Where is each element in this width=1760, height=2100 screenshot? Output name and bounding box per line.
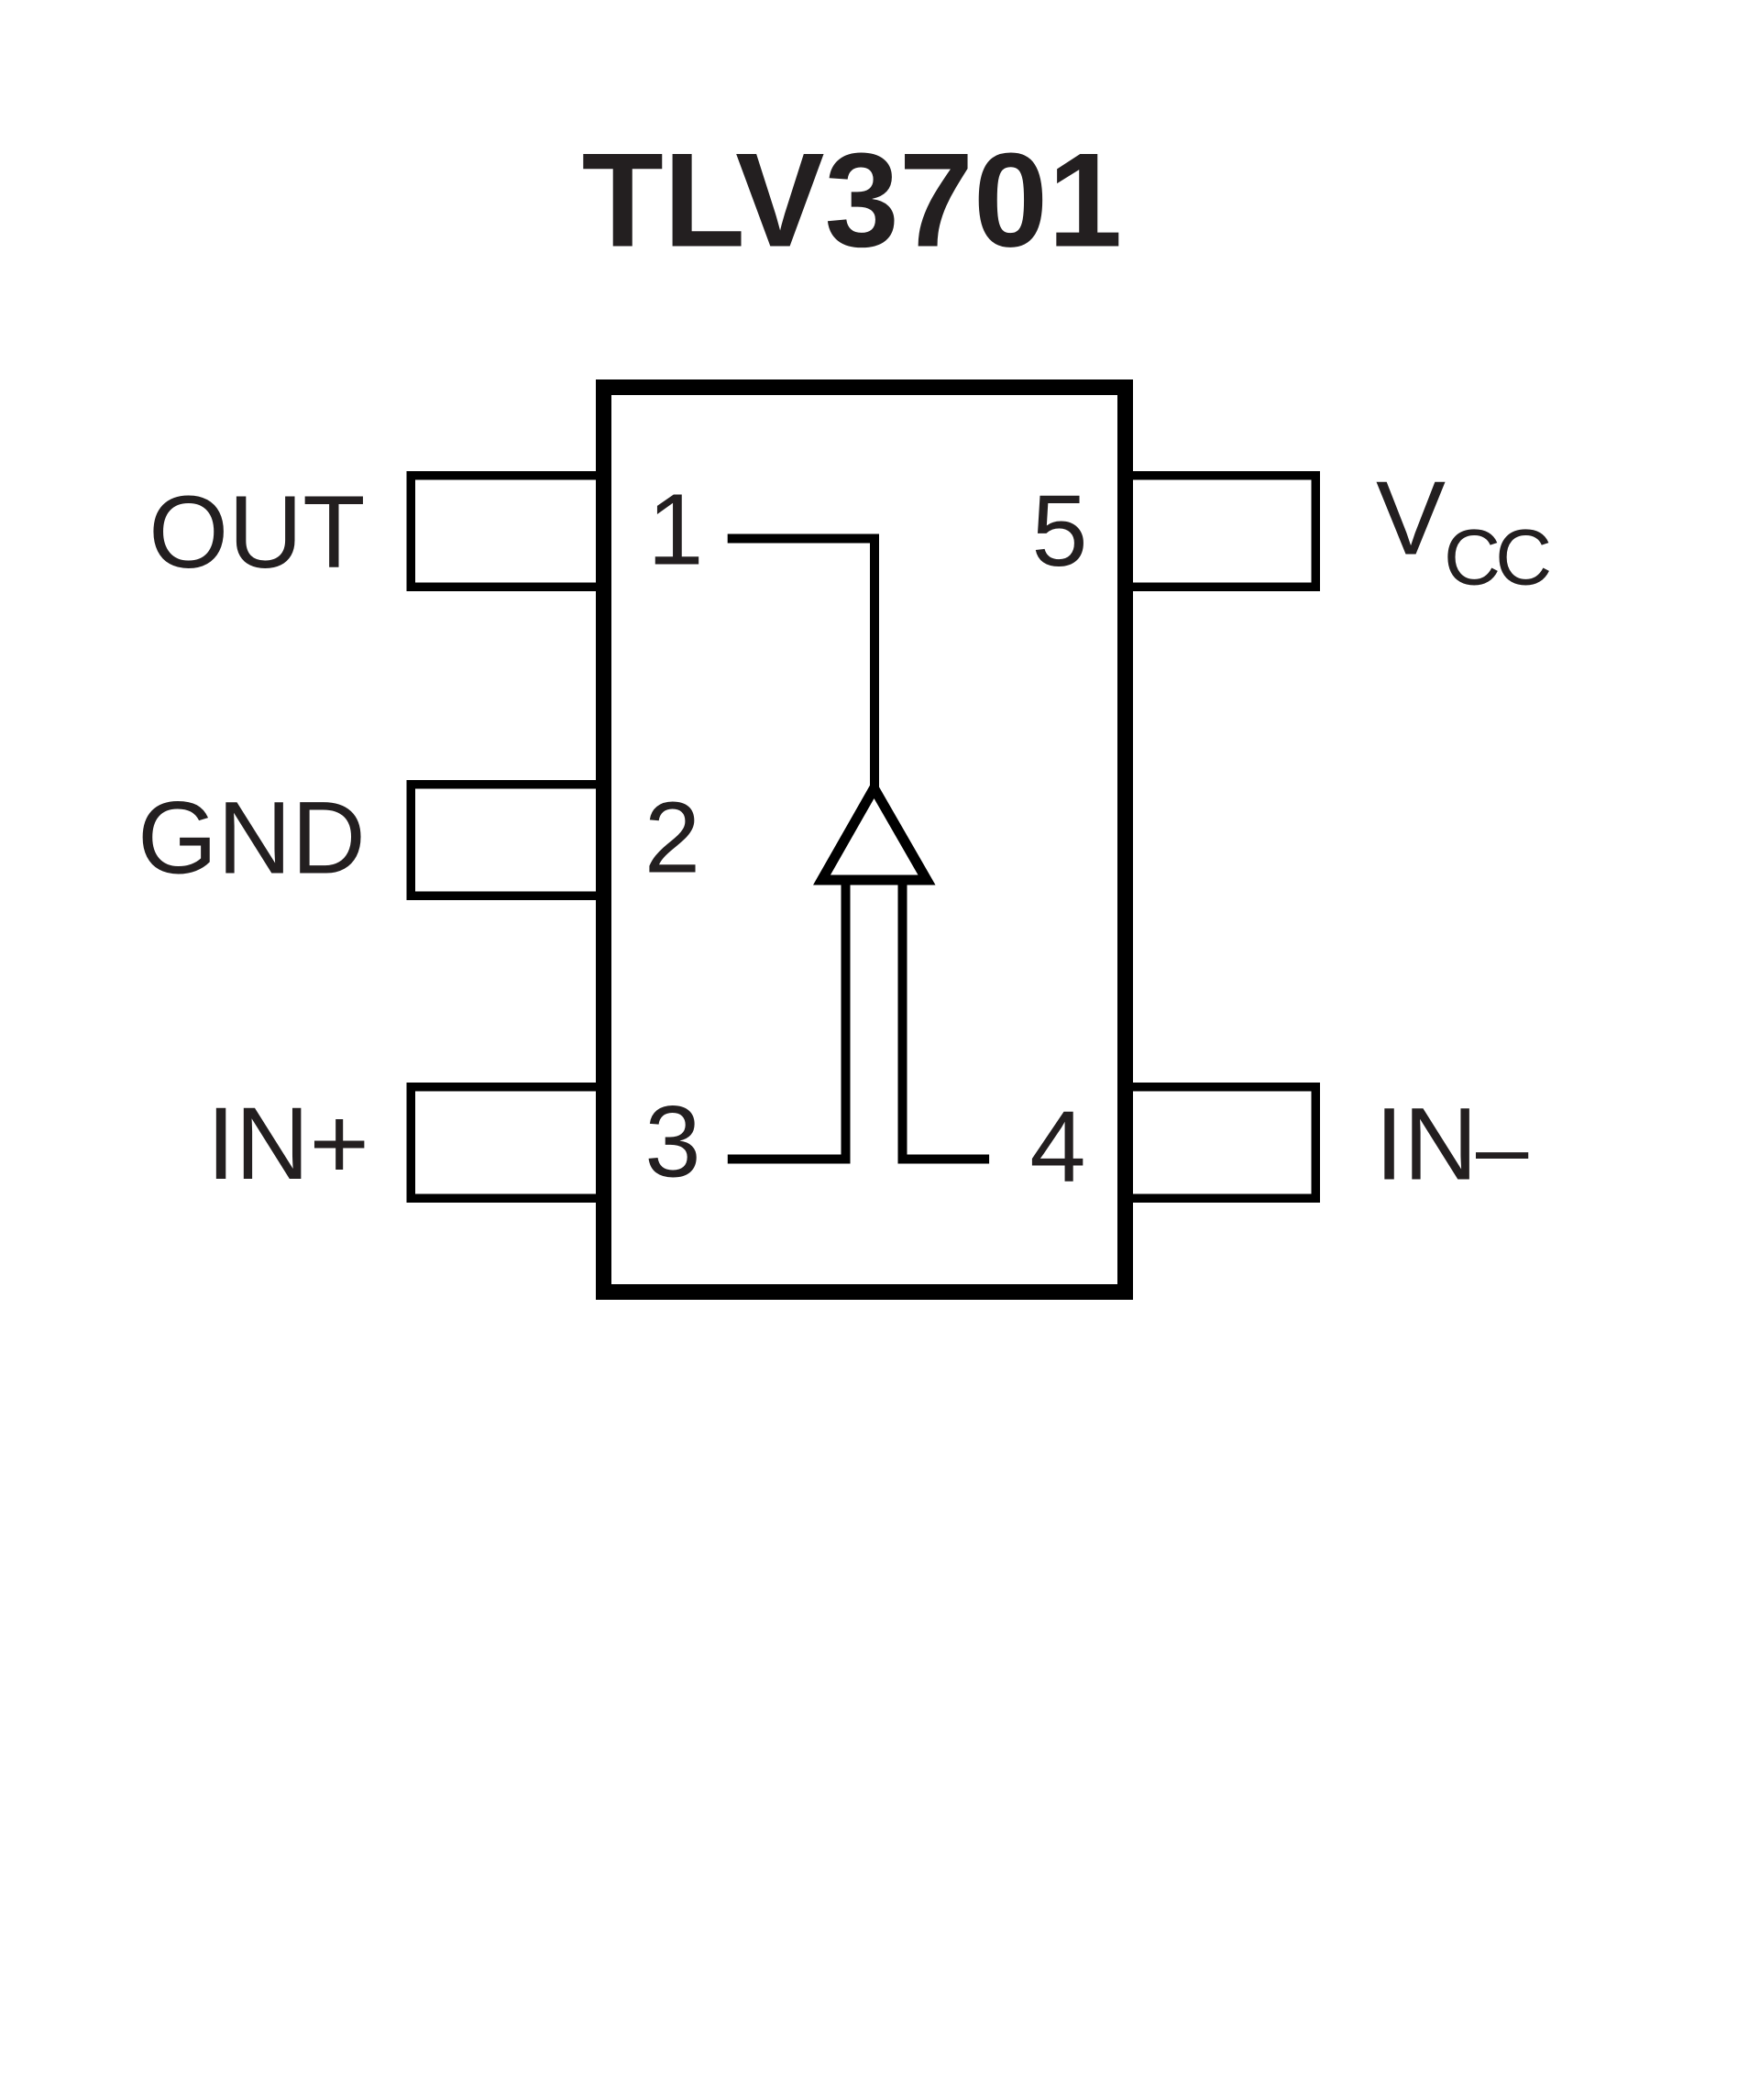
wire pin1 to comparator output [728, 539, 874, 795]
svg-text:5: 5 [1031, 475, 1087, 588]
svg-text:IN–: IN– [1375, 1087, 1529, 1202]
pin VCC lead (pin 5) [1122, 476, 1315, 588]
pin IN+ lead (pin 3) [411, 1087, 607, 1199]
svg-text:4: 4 [1029, 1091, 1085, 1204]
svg-text:TLV3701: TLV3701 [582, 126, 1123, 275]
svg-text:2: 2 [644, 782, 700, 895]
svg-text:3: 3 [644, 1086, 700, 1199]
svg-text:1: 1 [647, 474, 703, 587]
wire pin4 to comparator inverting input [903, 877, 990, 1160]
svg-text:OUT: OUT [148, 475, 365, 589]
pin OUT lead (pin 1) [411, 476, 607, 588]
svg-text:GND: GND [137, 781, 366, 896]
svg-text:IN+: IN+ [206, 1086, 368, 1201]
IC body U1 [604, 388, 1126, 1292]
op-amp comparator triangle [822, 788, 928, 880]
pin GND lead (pin 2) [411, 785, 607, 896]
wire pin3 to comparator noninverting input [728, 877, 846, 1160]
pin IN- lead (pin 4) [1122, 1087, 1315, 1199]
